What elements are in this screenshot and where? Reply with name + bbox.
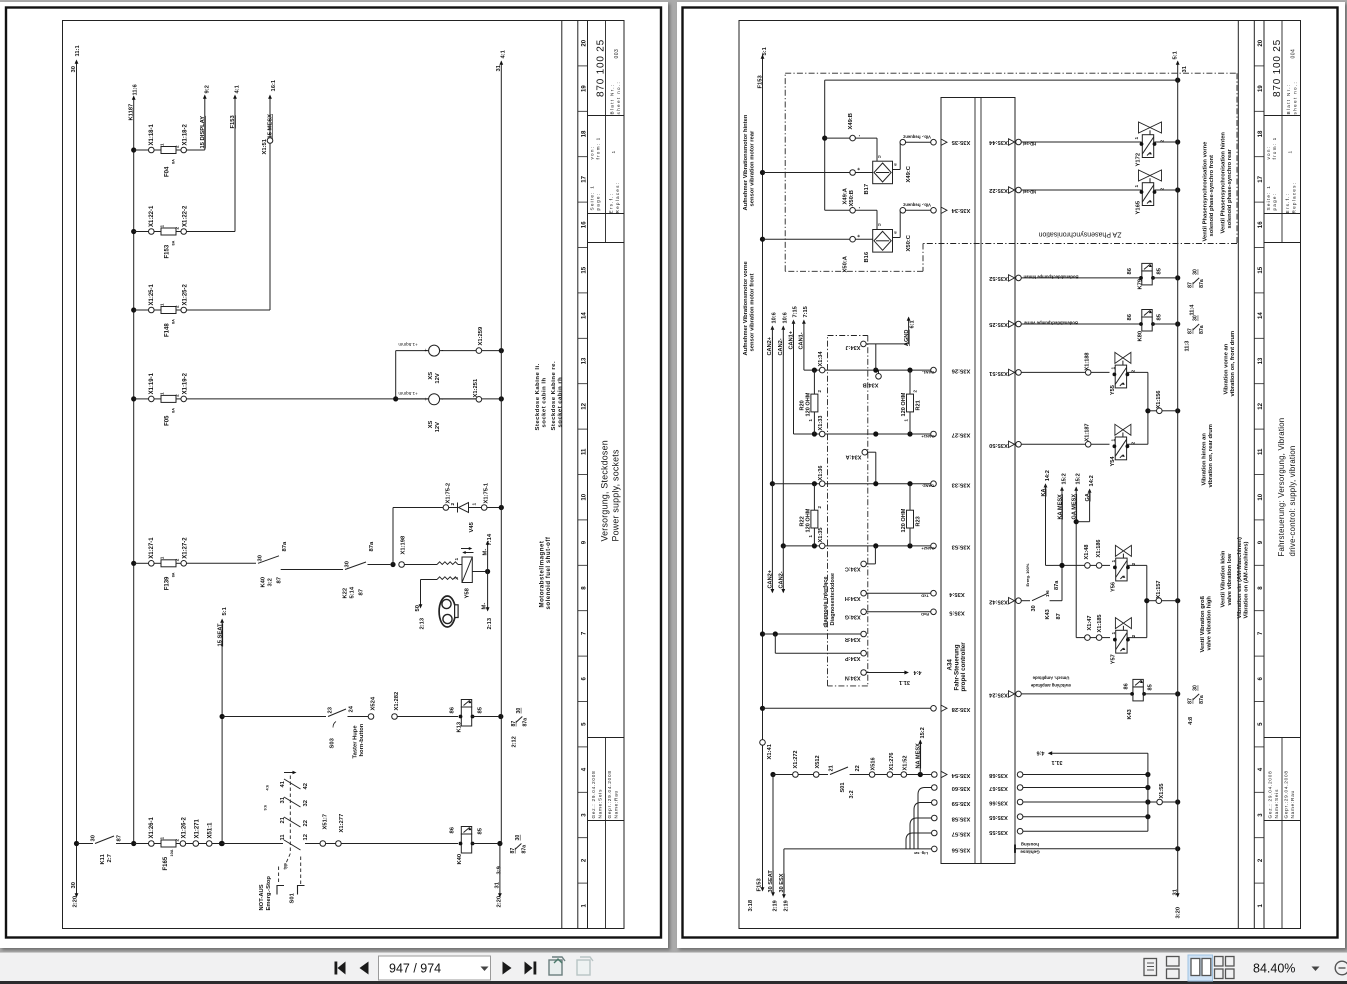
svg-text:2: 2 [1131,635,1137,638]
svg-text:X35:57: X35:57 [952,831,971,837]
svg-text:1: 1 [160,556,165,559]
svg-text:X1:188: X1:188 [1085,352,1091,370]
svg-text:Versorgung, Steckdosen: Versorgung, Steckdosen [600,440,610,541]
svg-text:21: 21 [280,816,286,823]
svg-text:NA MESX: NA MESX [916,743,922,769]
svg-text:30: 30 [1193,685,1199,691]
svg-text:947 / 974: 947 / 974 [389,962,441,976]
rows X35:60-57 bundle [932,785,938,791]
svg-text:NOT-AUS: NOT-AUS [259,884,265,910]
svg-text:12: 12 [303,834,309,840]
svg-text:+1.5qmm: +1.5qmm [398,342,417,347]
wire X1:156 to bus [1145,408,1150,413]
svg-text:Bodenabdeckpumpe vorne: Bodenabdeckpumpe vorne [1023,321,1077,326]
svg-text:X1:276: X1:276 [889,752,895,770]
diag row X34:N / 31.1 ref [861,670,867,676]
svg-text:12: 12 [580,402,587,409]
svg-text:X1:41: X1:41 [767,743,773,759]
svg-text:XS: XS [428,372,434,380]
svg-text:4: 4 [580,767,587,771]
svg-text:sheet no.:: sheet no.: [616,81,621,115]
svg-text:30: 30 [71,882,77,888]
svg-text:X1:55: X1:55 [1159,784,1165,799]
svg-text:4:8: 4:8 [1188,717,1194,725]
title block [1264,115,1301,117]
svg-text:ND-sei: ND-sei [1023,190,1036,195]
page frame [6,8,661,938]
svg-text:Ers.f.:: Ers.f.: [609,193,614,214]
connector X34:J / AGND [861,341,867,347]
svg-text:86: 86 [450,826,456,833]
svg-text:Diagnosesteckdose: Diagnosesteckdose [830,573,836,626]
svg-text:Replaces:: Replaces: [1292,182,1297,214]
svg-text:3: 3 [1257,813,1264,817]
CAN2 exit arrows [770,481,775,486]
svg-text:11:4: 11:4 [1190,304,1196,316]
svg-text:3:2: 3:2 [849,790,855,798]
svg-text:Ers.f.:: Ers.f.: [1285,193,1290,214]
svg-text:86: 86 [1124,683,1130,689]
svg-text:120 OHM: 120 OHM [806,392,812,416]
svg-text:87a: 87a [1199,325,1205,334]
svg-text:4: 4 [1257,767,1264,771]
svg-text:30 ESX: 30 ESX [779,873,785,892]
horn button S03 row [222,716,326,718]
svg-text:X1:47: X1:47 [1087,616,1093,631]
wire bus K1187 [133,97,135,844]
svg-text:valve vibration high: valve vibration high [1207,596,1213,651]
svg-text:sheet no.:: sheet no.: [1293,81,1298,115]
svg-text:Name:Seis: Name:Seis [597,789,602,819]
svg-text:12V: 12V [435,373,441,383]
svg-text:K40: K40 [261,577,267,588]
svg-text:X1:18-2: X1:18-2 [183,123,189,145]
svg-text:switching amplitude: switching amplitude [1030,683,1071,688]
toolbar prev-page button [360,962,369,975]
svg-text:17: 17 [1257,175,1264,182]
svg-text:1: 1 [1288,151,1294,154]
svg-text:X1:271: X1:271 [195,818,201,838]
svg-text:drive-control: supply, vibrati: drive-control: supply, vibration [1288,446,1297,557]
svg-text:87a: 87a [521,845,527,854]
svg-text:21: 21 [828,765,834,771]
svg-text:9: 9 [1257,540,1264,544]
svg-text:X34:J: X34:J [846,344,861,350]
svg-text:32: 32 [303,800,309,806]
svg-text:X1:75-2: X1:75-2 [446,483,452,504]
svg-text:X34:A: X34:A [846,454,862,460]
svg-text:+: + [857,235,863,238]
svg-text:Y165: Y165 [1136,200,1142,214]
svg-text:Gepr.:29.04.2008: Gepr.:29.04.2008 [1284,770,1289,818]
svg-text:X35:28: X35:28 [951,706,970,712]
svg-text:X1:157: X1:157 [1156,580,1162,598]
svg-text:X34:G: X34:G [845,614,861,620]
svg-text:30: 30 [515,835,521,841]
svg-text:from: 1: from: 1 [596,137,601,160]
svg-text:X34:B: X34:B [863,382,879,388]
svg-text:2: 2 [817,506,822,509]
wire V45 row [393,507,443,509]
wire bus 30 exit bottom [76,844,78,897]
svg-text:20: 20 [1257,39,1264,46]
svg-text:X1:198: X1:198 [401,535,407,554]
contact K11 2:7 [74,841,79,846]
ref arrows KA GA [1044,483,1048,487]
svg-text:1: 1 [1111,367,1117,370]
svg-text:X35:22: X35:22 [989,187,1008,193]
svg-text:8A: 8A [172,159,176,164]
controller A34 block [941,98,1015,864]
svg-text:solenoid phase-synchro rear: solenoid phase-synchro rear [1227,149,1233,229]
svg-text:50: 50 [415,605,421,611]
svg-text:10:6: 10:6 [771,312,777,323]
svg-text:Y172: Y172 [1136,153,1142,167]
svg-text:S01: S01 [840,783,846,793]
svg-text:16: 16 [580,221,587,228]
svg-text:6: 6 [580,676,587,680]
svg-text:31: 31 [495,881,501,888]
relay coil K40 [461,834,471,853]
svg-text:vibration on, rear drum: vibration on, rear drum [1208,424,1214,487]
svg-text:Steckdose Kabine li.: Steckdose Kabine li. [535,363,541,430]
svg-text:31.1: 31.1 [1052,759,1063,765]
svg-text:1: 1 [580,903,587,907]
wire Y58 out M- [472,571,485,573]
diag row X34:G [861,609,867,615]
svg-text:31: 31 [280,796,286,803]
svg-text:X35:54: X35:54 [951,772,970,778]
svg-text:15 MESX: 15 MESX [267,114,273,139]
svg-text:F153: F153 [230,115,236,129]
svg-text:16:1: 16:1 [271,79,277,91]
svg-text:1: 1 [1134,185,1140,188]
svg-text:2: 2 [1257,858,1264,862]
svg-text:1: 1 [472,503,478,506]
svg-text:30: 30 [516,708,522,714]
fuse F148 [131,307,136,312]
svg-text:Y54: Y54 [1110,456,1116,467]
ref 30 SEAT [772,775,774,896]
svg-text:1: 1 [160,837,165,840]
svg-text:Blatt Nr.:: Blatt Nr.: [610,84,615,115]
svg-text:V45: V45 [469,521,475,532]
svg-text:X35:34: X35:34 [951,207,970,213]
svg-text:Umsch. Amplitude: Umsch. Amplitude [1032,676,1069,681]
svg-text:u: u [878,155,881,160]
svg-text:X50:C: X50:C [906,234,912,251]
svg-text:X1:27-2: X1:27-2 [183,537,189,559]
svg-text:14: 14 [580,312,587,319]
svg-text:-: - [441,348,443,354]
contact K40 3:2 [186,562,256,564]
svg-text:diagnosis interface: diagnosis interface [823,577,829,628]
svg-text:1: 1 [1111,439,1117,442]
svg-text:X35:24: X35:24 [988,692,1007,698]
svg-text:X35:50: X35:50 [989,442,1008,448]
svg-text:AGND: AGND [904,330,910,346]
dash-dot box ZA Phasensynchronisation [785,72,1237,74]
svg-text:X35:42: X35:42 [989,598,1008,604]
svg-text:13: 13 [1257,357,1264,364]
svg-text:solenoid fuel shut-off: solenoid fuel shut-off [545,536,552,609]
svg-text:1: 1 [160,392,165,395]
svg-text:23: 23 [328,706,334,713]
svg-text:87: 87 [1188,282,1194,288]
svg-text:+: + [424,397,427,403]
svg-text:11: 11 [280,834,286,841]
svg-text:87: 87 [359,589,365,595]
svg-text:Gehäuse: Gehäuse [1020,850,1040,855]
svg-text:X1:187: X1:187 [1085,423,1091,441]
svg-text:page:: page: [596,193,601,211]
svg-text:86: 86 [1127,267,1133,274]
svg-text:42: 42 [303,783,309,789]
svg-text:1: 1 [904,419,909,422]
svg-text:41: 41 [280,780,286,787]
svg-text:X49:B: X49:B [848,113,854,129]
ref NA MESX [919,741,921,775]
resistor R21 [909,370,911,434]
svg-text:X1:33: X1:33 [818,416,824,431]
svg-text:X34:P: X34:P [845,655,861,661]
svg-text:X49:C: X49:C [906,165,912,182]
diag row X34:H [861,590,867,596]
svg-text:CAN2+: CAN2+ [921,546,935,551]
resistor R22 [813,484,815,546]
wire CAN row X35:53 [783,545,931,547]
svg-text:Y58: Y58 [465,587,471,598]
svg-text:87: 87 [511,721,517,727]
svg-text:19: 19 [580,85,587,92]
svg-text:K43: K43 [1045,609,1051,619]
svg-text:12: 12 [1257,402,1264,409]
svg-text:typ: typ [283,863,288,870]
svg-text:F139: F139 [165,576,171,590]
svg-text:3:20: 3:20 [1176,907,1182,919]
housing wire [1015,848,1175,850]
svg-text:2:7: 2:7 [107,854,113,862]
fuse F165 [134,843,149,845]
svg-text:Gez.: 29.04.2008: Gez.: 29.04.2008 [591,771,596,819]
svg-text:X35:26: X35:26 [951,368,970,374]
horn symbol [439,596,455,627]
svg-text:7: 7 [580,631,587,635]
svg-text:X49:A: X49:A [843,187,849,204]
svg-text:Name:Rau: Name:Rau [1290,790,1295,818]
page frame [683,8,1338,938]
svg-text:2: 2 [580,858,587,862]
svg-text:X1:25-1: X1:25-1 [149,283,155,305]
svg-text:X34:C: X34:C [845,566,861,572]
wire F148 out / 15 MESX / X1:51 [186,309,270,311]
svg-text:2:12: 2:12 [511,736,517,747]
svg-text:87: 87 [1188,328,1194,334]
svg-text:Vibration hinten an: Vibration hinten an [1202,433,1208,486]
svg-text:8A: 8A [172,319,176,324]
svg-text:X1:22-1: X1:22-1 [149,205,155,227]
connector X34:B [876,374,882,380]
svg-text:Seite: 1: Seite: 1 [590,185,595,211]
bus 31 exit bottom [499,844,501,897]
svg-text:Ltg. sw: Ltg. sw [913,851,928,856]
svg-text:87: 87 [277,577,283,583]
svg-text:-: - [857,207,863,209]
svg-text:20: 20 [580,39,587,46]
svg-text:2: 2 [913,390,918,393]
toolbar continuous icon [1167,957,1180,979]
wire socket row upper [396,350,429,352]
fuse F153 [131,229,136,234]
svg-text:8: 8 [1257,586,1264,590]
svg-text:19: 19 [1257,85,1264,92]
svg-text:2: 2 [175,305,180,308]
svg-text:X1:52: X1:52 [903,756,909,771]
toolbar last-page button [525,962,533,975]
emergency stop S01 [222,843,284,845]
svg-text:CAN2-: CAN2- [779,571,785,588]
wire top 31 feed [825,79,1178,81]
svg-text:7:15: 7:15 [793,306,799,317]
toolbar next-page button [503,962,512,975]
svg-text:X1:22-2: X1:22-2 [183,205,189,227]
svg-text:Blatt Nr.:: Blatt Nr.: [1286,84,1291,115]
svg-text:valve vibration low: valve vibration low [1227,553,1233,605]
svg-text:X50:B: X50:B [849,190,855,206]
svg-text:X35:27: X35:27 [952,432,971,438]
diag row X34:P [861,650,867,656]
svg-text:HD-sei: HD-sei [1023,142,1036,147]
svg-text:Aufnehmer Vibrationsmotor vorn: Aufnehmer Vibrationsmotor vorne [743,260,749,355]
connectors X1:271 X51:1 [185,843,193,845]
svg-text:87: 87 [117,835,123,841]
12V socket XS X1:259 [429,345,440,356]
svg-text:15: 15 [580,266,587,273]
svg-text:1: 1 [160,225,165,228]
svg-text:K79: K79 [1138,278,1144,289]
svg-text:socket cabin rh: socket cabin rh [558,377,564,428]
svg-text:13: 13 [580,357,587,364]
svg-text:87: 87 [1056,613,1062,619]
svg-text:K1187: K1187 [128,104,134,121]
svg-text:X1:36: X1:36 [818,466,824,481]
svg-text:+: + [857,168,863,171]
svg-text:5: 5 [1257,722,1264,726]
wire 15 SEAT riser [221,620,223,844]
svg-text:X1:282: X1:282 [394,692,400,711]
svg-text:Replaces:: Replaces: [615,182,620,214]
svg-text:X516: X516 [871,757,877,770]
svg-text:7: 7 [1257,631,1264,635]
svg-text:X35:68: X35:68 [988,772,1007,778]
svg-text:X1:185: X1:185 [1097,614,1103,632]
svg-text:X35:51: X35:51 [988,370,1007,376]
svg-text:5: 5 [580,722,587,726]
svg-text:7:15: 7:15 [803,306,809,317]
12V socket XS X1:251 [429,394,440,405]
svg-text:X1:27-1: X1:27-1 [149,537,155,559]
svg-text:X1:25-2: X1:25-2 [183,283,189,305]
svg-text:85: 85 [1148,684,1154,690]
svg-text:120 OHM: 120 OHM [901,508,907,532]
svg-text:30: 30 [345,561,351,567]
svg-text:page:: page: [1272,193,1277,211]
svg-text:30: 30 [1193,269,1199,275]
toolbar first-page button [335,962,537,975]
dash-dot box diagnosis [828,335,868,337]
svg-text:Bodenabdeckpumpe hinten: Bodenabdeckpumpe hinten [1023,275,1078,280]
wire row X35:28 [763,707,931,709]
svg-text:X35:5: X35:5 [948,609,964,615]
svg-text:a: a [894,163,897,168]
svg-text:RxD: RxD [921,612,929,617]
svg-text:14:2: 14:2 [1045,470,1051,481]
svg-text:X1:186: X1:186 [1096,539,1102,557]
svg-text:Ventil Vibration groß: Ventil Vibration groß [1200,595,1206,652]
svg-text:propel controller: propel controller [960,642,967,692]
svg-text:11:1: 11:1 [75,44,81,56]
svg-text:CAN2+: CAN2+ [768,569,774,588]
svg-text:14: 14 [1257,312,1264,319]
svg-text:8A: 8A [172,572,176,577]
svg-text:1: 1 [160,303,165,306]
wire X1:157 to bus [1144,598,1149,603]
svg-text:003: 003 [614,49,620,59]
svg-text:Y55: Y55 [1110,385,1116,395]
svg-text:84.40%: 84.40% [1253,962,1295,976]
svg-text:11: 11 [580,448,587,455]
connector X1:41 [760,740,766,746]
svg-text:F153: F153 [758,75,764,89]
svg-text:X35:4: X35:4 [948,591,964,597]
connector X34:C [861,561,867,567]
svg-text:X35:44: X35:44 [988,139,1007,145]
svg-text:3:2: 3:2 [268,578,274,586]
svg-text:Fahrsteuerung: Versorgung, Vib: Fahrsteuerung: Versorgung, Vibration [1277,418,1286,557]
svg-text:X34:N: X34:N [845,675,861,681]
svg-text:X1:156: X1:156 [1156,390,1162,408]
svg-text:86: 86 [1127,313,1133,320]
toolbar single page icon [1144,959,1157,976]
connector X34:A [862,449,868,455]
svg-text:2:19: 2:19 [773,900,779,911]
svg-text:2:13: 2:13 [487,617,493,629]
svg-text:K40: K40 [457,854,463,865]
svg-text:ZA Phasensynchronisation: ZA Phasensynchronisation [1038,231,1121,238]
svg-text:CAN2-: CAN2- [921,484,934,489]
svg-text:X512: X512 [815,755,821,768]
diag row X34:R [861,631,867,637]
svg-text:X1:272: X1:272 [793,750,799,768]
svg-text:X1:35: X1:35 [818,528,824,543]
bus F153 right page [762,55,764,891]
svg-text:M-: M- [483,549,489,556]
svg-text:Vibration on (AM-machines): Vibration on (AM-machines) [1244,542,1250,619]
svg-text:4:1: 4:1 [501,49,507,58]
connectors X51:7 X1:277 [305,843,320,845]
svg-text:5:1: 5:1 [222,606,228,615]
svg-text:K13: K13 [457,721,463,732]
svg-text:sensor vibration motor front: sensor vibration motor front [750,273,756,351]
svg-text:X50:A: X50:A [843,255,849,272]
svg-text:2: 2 [175,227,180,230]
svg-text:15 SEAT: 15 SEAT [218,623,224,647]
svg-text:8: 8 [580,586,587,590]
svg-text:870 100 25: 870 100 25 [595,39,606,97]
svg-text:3:18: 3:18 [748,899,754,911]
svg-text:5:14: 5:14 [350,586,356,598]
title block [588,115,625,117]
